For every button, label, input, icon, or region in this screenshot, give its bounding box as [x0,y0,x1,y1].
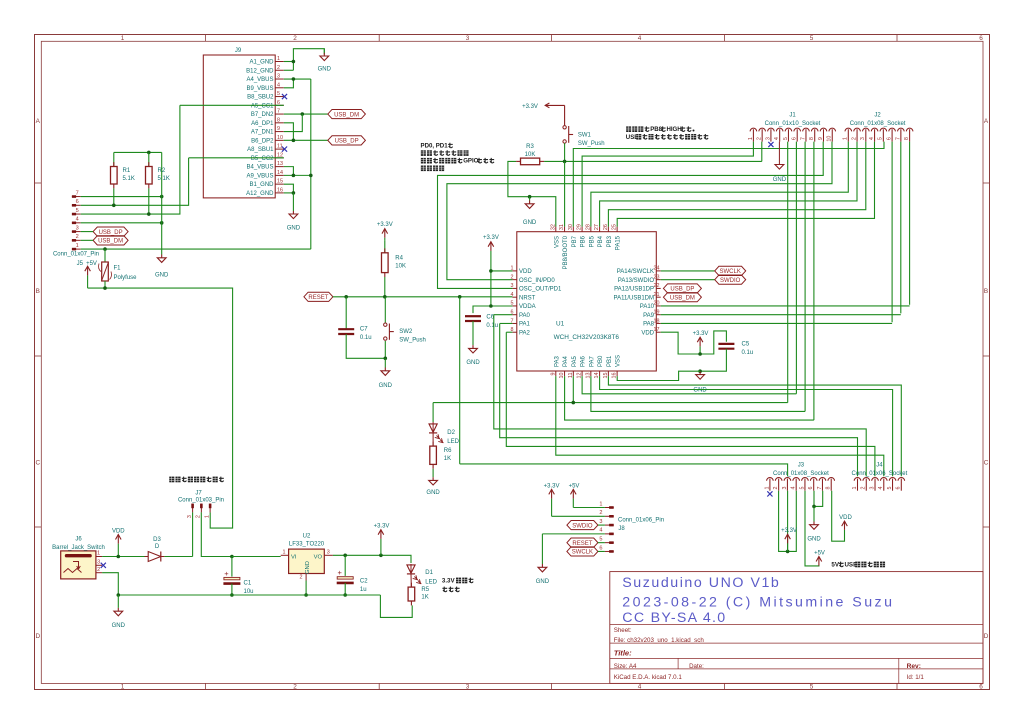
svg-text:PA1: PA1 [519,322,531,328]
junction BOOT0 [563,160,567,164]
svg-text:PB6: PB6 [581,235,587,247]
J6 pin 1 [96,556,102,558]
wire PA5 pin11 to D2 and J1 pin5 [572,376,574,403]
svg-text:GND: GND [426,490,440,496]
svg-text:USB_DM: USB_DM [334,112,359,118]
wire SWCLK pin24 [661,270,715,272]
wire R1 bottom to row6 [113,188,115,205]
svg-text:Size: A4: Size: A4 [614,663,637,670]
svg-text:C5: C5 [742,342,750,348]
svg-text:19: 19 [654,310,660,316]
svg-text:GND: GND [536,579,550,585]
svg-text:7: 7 [817,487,823,490]
power +3.3V left arrow at SW1 [545,104,564,106]
label SWDIO at J8 [567,520,598,529]
svg-text:2023-08-22 (C) Mitsumine Suzu: 2023-08-22 (C) Mitsumine Suzu [622,595,894,611]
wire GND drop x161.7 [161,152,163,254]
J9 pin 2 B12_GND [275,69,284,71]
U1 pin 5 VDDA [512,305,516,307]
svg-text:SWCLK: SWCLK [572,550,593,556]
label USB_DP at pin22 [663,284,701,293]
note manual power switch [169,477,174,483]
svg-text:Conn_01x03_Pin: Conn_01x03_Pin [178,498,224,504]
wire R2 bottom to row5 [148,188,150,214]
svg-text:4: 4 [869,137,875,140]
svg-text:8: 8 [904,137,910,140]
svg-text:A: A [36,118,41,125]
junction rail R2 [147,151,151,155]
junction GND row [528,195,532,199]
svg-text:5: 5 [599,536,602,542]
MCU U1 WCH_CH32V203K8T6 [517,232,657,371]
svg-text:B1_GND: B1_GND [249,182,274,188]
svg-text:B8_SBU2: B8_SBU2 [247,95,274,101]
wire PD0 route U1 pin2 to J1 pin10 [447,142,832,280]
svg-text:5: 5 [277,91,280,97]
svg-text:SW1: SW1 [578,133,592,139]
svg-text:10: 10 [827,136,833,142]
wire SW1 bottom to BOOT0 row [564,143,566,161]
J8 pin 6 [605,550,614,552]
J9 pin 13 B4_VBUS [275,166,284,168]
svg-text:PA2: PA2 [519,330,531,336]
U1 pin 28 PB5 [590,227,592,232]
svg-text:A5_CC1: A5_CC1 [251,103,274,109]
power +3.3V at J3 [787,534,789,543]
wire J9 pin9 to pin7 [284,114,303,132]
wire R3 left to GND [508,161,530,196]
svg-text:PA11/USB1DM: PA11/USB1DM [614,295,654,301]
J3 pin 7 [819,477,826,480]
svg-text:U2: U2 [303,533,311,539]
svg-text:GND: GND [466,360,480,366]
svg-text:23: 23 [654,274,660,280]
wire U2 out row [333,555,411,563]
svg-text:5: 5 [887,487,893,490]
J2 pin 2 [854,128,861,131]
J3 pin 5 [802,478,809,481]
svg-text:3: 3 [97,560,100,566]
junction U2 GND [304,593,308,597]
J4 pin 1 [854,478,861,481]
svg-text:GND: GND [112,623,126,629]
svg-text:GND: GND [807,537,821,543]
svg-text:Polyfuse: Polyfuse [114,275,138,281]
svg-text:1: 1 [121,35,125,42]
power VDD at J6 [117,535,119,544]
wire PB4 pin27 to J2 pin2 [600,142,857,227]
svg-text:5.1K: 5.1K [123,176,135,182]
svg-text:A7_DN1: A7_DN1 [251,130,274,136]
U1 pin 32 VSS [555,227,557,232]
svg-text:Conn_01x10_Socket: Conn_01x10_Socket [765,121,821,127]
J7 pin 1 [209,504,211,513]
svg-text:7: 7 [895,137,901,140]
capacitor C6 0.1u at VDDA [465,315,481,317]
ground GND under C5 [699,371,701,374]
svg-text:2: 2 [851,137,857,140]
ground GND at J9 top [323,49,325,53]
U1 pin 4 NRST [512,296,516,298]
svg-text:2: 2 [196,515,202,518]
wire R6 to GND [432,469,434,477]
svg-text:32: 32 [550,224,556,230]
wire VDD pin17 route [661,331,727,354]
junction +3.3V out [379,554,383,558]
U1 pin 19 PA9 [656,314,660,316]
junction C2 [343,554,347,558]
svg-text:A4_VBUS: A4_VBUS [246,77,273,83]
U1 pin 17 VDD [656,331,660,333]
ground GND under C6 [472,321,474,345]
wire J9 pin3/pin4 VBUS [284,78,311,80]
svg-text:2: 2 [773,487,779,490]
U1 pin 13 PA7 [590,371,592,376]
svg-text:A1_GND: A1_GND [249,60,274,66]
wire J6 pin2 to GND rail [102,573,118,595]
junction PA5 [572,401,576,405]
svg-text:5: 5 [878,137,884,140]
wire PA3 pin9 to J4 pin4 [556,376,884,476]
svg-text:USB_DP: USB_DP [99,230,123,236]
svg-text:+3.3V: +3.3V [544,483,560,489]
wire CC pulldown top rail [114,151,162,153]
wire J1 pin2 riser [761,142,763,162]
wire D3 to J7 pin3 [164,556,192,558]
J9 pin 16 A12_GND [275,192,284,194]
wire PA15 pin25 to J2 pin4 [617,142,874,227]
wire PA10 pin20 to J2 pin8 [661,305,910,307]
junction J9 pin10 [292,139,296,143]
J4 pin 4 [880,477,887,480]
svg-text:1: 1 [843,137,849,140]
J3 pin 6 [810,478,817,481]
svg-text:2: 2 [293,35,297,42]
J5 pin 7 [72,196,81,198]
U1 pin 29 PB6 [581,227,583,232]
svg-text:13: 13 [277,161,283,167]
svg-text:3: 3 [76,225,79,231]
label SWDIO [715,275,746,284]
junction J9 pin1 [292,60,296,64]
svg-text:NRST: NRST [519,295,536,301]
wire J5 pin1 +5V VBUS row [81,248,311,250]
wire J5 pin5 CC1 [81,105,180,214]
svg-text:Conn_01x06_Socket: Conn_01x06_Socket [852,471,908,477]
no-connect J9 pin5 [282,94,287,99]
wire J2 pin7 to PA9 row [900,142,902,314]
wire J9 pin15 to pin16 [284,184,294,193]
ground GND under R6 [432,477,434,480]
switch SW2 SW_Push [384,297,386,323]
svg-text:F1: F1 [114,266,122,272]
svg-text:J5: J5 [77,261,84,267]
no-connect J9 pin11 [282,147,287,152]
svg-text:B6_DP2: B6_DP2 [251,138,274,144]
svg-text:1: 1 [599,501,602,507]
J9 pin 8 A6_DP1 [275,122,284,124]
wire J1 pin5 to PA5 row [787,142,789,403]
connector J9 USB-C [203,55,275,198]
svg-text:SW_Push: SW_Push [578,141,605,147]
wire J3 pin6 pin7 GND [814,491,823,507]
svg-text:6: 6 [808,487,814,490]
power +3.3V above R4 [384,229,386,238]
svg-text:8: 8 [826,487,832,490]
J7 pin 3 [192,504,194,513]
svg-text:7: 7 [277,109,280,115]
svg-text:B9_VBUS: B9_VBUS [246,86,273,92]
svg-text:GPIO: GPIO [463,158,478,165]
svg-text:+3.3V: +3.3V [522,104,538,110]
svg-text:PA3: PA3 [554,355,560,367]
svg-text:GND: GND [773,177,787,183]
svg-text:1: 1 [204,515,210,518]
junction R2 row5 [147,212,151,216]
J1 pin 4 [776,128,783,131]
J1 pin 2 [759,128,766,131]
U1 pin 8 PA2 [512,331,516,333]
svg-text:4: 4 [638,35,642,42]
label USB_DP at J5 pin3 [93,227,128,236]
svg-text:PA0: PA0 [519,313,531,319]
U1 pin 10 PA4 [564,371,566,376]
J3 pin 1 [767,477,774,480]
wire PA4 pin10 to J1 pin8 row [565,376,814,420]
U1 pin 26 PB3 [607,227,609,232]
J9 pin 6 A5_CC1 [275,104,284,106]
junction J3 GND [812,505,816,509]
svg-text:J8: J8 [618,526,625,532]
resistor R6 1K [432,433,434,446]
junction F1 bottom [103,286,107,290]
J9 pin 14 A9_VBUS [275,174,284,176]
junction J9 pin3 [292,77,296,81]
svg-text:2: 2 [293,684,297,691]
wire J6 pin1 to D3 [102,556,148,558]
U1 pin 20 PA10 [656,305,660,307]
U1 pin 12 PA6 [581,371,583,376]
wire J9 pin8 to pin10 [284,123,294,141]
svg-text:24: 24 [654,266,660,272]
capacitor C5 0.1u [718,343,734,345]
svg-text:PA5: PA5 [572,355,578,367]
svg-text:8: 8 [277,117,280,123]
svg-text:PB4: PB4 [598,235,604,247]
switch SW1 SW_Push [564,105,566,125]
svg-text:9: 9 [277,126,280,132]
wire PB0 pin14 to J4 pin5 [600,376,893,476]
svg-text:0.1u: 0.1u [360,335,372,341]
wire PA7 pin13 to J1 pin7 row [591,376,805,411]
svg-text:Title:: Title: [614,648,632,657]
resistor R1 5.1K [113,152,115,166]
svg-text:5: 5 [799,487,805,490]
wire BOOT0 pin31 riser [564,161,566,226]
svg-text:3: 3 [869,487,875,490]
junction J9 pin14 [292,174,296,178]
svg-text:+3.3V: +3.3V [374,524,390,530]
svg-text:1K: 1K [444,456,451,462]
svg-text:PB5: PB5 [589,235,595,247]
svg-text:20: 20 [654,301,660,307]
wire U1 NRST drop [459,297,461,464]
svg-text:Conn_01x06_Pin: Conn_01x06_Pin [618,517,664,523]
wire J5 pin4 GND [81,222,162,224]
label USB_DM at J9 [328,109,366,118]
label RESET at J8 [567,538,598,547]
svg-text:VSS: VSS [554,236,560,248]
ground GND at J3 [813,506,815,521]
svg-text:1: 1 [283,550,286,556]
wire J3 pin5 +5V [805,491,819,566]
svg-text:VDD: VDD [839,515,852,521]
svg-text:5V: 5V [831,562,839,569]
svg-text:USB_DM: USB_DM [670,295,695,301]
svg-text:4: 4 [599,528,602,534]
J5 pin 5 [72,213,81,215]
svg-text:4: 4 [638,684,642,691]
svg-text:3: 3 [782,487,788,490]
svg-text:C: C [984,460,989,467]
U2 pin3 [324,554,333,556]
U2 pin1 [281,554,289,556]
svg-text:3.3V: 3.3V [442,578,456,585]
wire PA9 pin19 to J2 pin7 [661,314,901,316]
J9 pin 15 B1_GND [275,183,284,185]
capacitor C2 1u [344,555,346,576]
J9 pin 10 B6_DP2 [275,139,284,141]
svg-text:RESET: RESET [572,541,592,547]
svg-text:3: 3 [187,515,193,518]
wire J1 pin6 to PA6 row [795,142,797,394]
junction C1 [230,555,234,559]
svg-text:Conn_01x08_Socket: Conn_01x08_Socket [773,471,829,477]
junction VDD pin1 [489,269,493,273]
svg-text:14: 14 [277,170,283,176]
J5 pin 3 [72,231,81,233]
U1 pin 21 PA11/USB1DM [656,296,660,298]
J3 pin 3 [784,478,791,481]
J5 pin 1 [72,248,81,250]
svg-text:SWDIO: SWDIO [720,278,741,284]
label RESET global [304,292,333,301]
svg-text:LED: LED [425,579,437,585]
svg-text:Conn_01x07_Pin: Conn_01x07_Pin [53,252,99,258]
J1 pin 6 [794,128,801,131]
junction F1 top [103,247,107,251]
wire J9 pin14 VBUS [284,174,311,176]
U1 pin 11 PA5 [572,371,574,376]
svg-text:B7_DN2: B7_DN2 [251,112,274,118]
svg-text:C1: C1 [244,581,252,587]
J9 pin 4 B9_VBUS [275,87,284,89]
label SWCLK [715,266,746,275]
ground GND near R3 [529,197,531,201]
svg-text:9: 9 [550,373,556,376]
wire PB1 pin15 to J4 pin6 [608,376,901,476]
wire PB7 pin30 to J2 pin5 [573,142,884,227]
wire CC2 to J9 pin12 [189,157,284,159]
title block [610,572,983,684]
svg-text:GND: GND [693,387,707,393]
J2 pin 8 [906,128,913,131]
svg-text:1K: 1K [421,595,428,601]
svg-text:Date:: Date: [689,663,704,670]
wire J9 pin13 to pin14 [284,167,294,176]
svg-text:WCH_CH32V203K8T6: WCH_CH32V203K8T6 [554,334,620,341]
svg-text:PA10: PA10 [640,304,655,310]
junction J9 pin7 [301,112,305,116]
U1 pin 24 PA14/SWCLK [656,270,660,272]
svg-text:3: 3 [599,519,602,525]
svg-text:B: B [984,288,988,295]
wire J9 pin7 USB_DM [284,113,328,115]
J4 pin 2 [863,478,870,481]
power +3.3V at J8 [551,489,553,498]
svg-text:PB7: PB7 [572,235,578,247]
J1 pin 8 [811,128,818,131]
wire VSS pin16 to GND [617,371,700,380]
junction J3 +3.3V [786,550,790,554]
svg-text:+5V: +5V [814,551,825,557]
wire R4 bottom to RESET row [384,277,386,297]
power +3.3V at U1 VDD pin1 [490,242,492,251]
U1 pin 9 PA3 [555,371,557,376]
wire J2 pin6 to PA8 row [891,142,893,323]
wire GND rail power section [118,594,380,596]
svg-text:RESET: RESET [308,295,328,301]
svg-text:C7: C7 [360,327,368,333]
svg-text:3: 3 [765,137,771,140]
J2 pin 7 [898,128,905,131]
junction row4 [160,221,164,225]
svg-text:U1: U1 [556,321,565,328]
wire SWDIO pin23 [661,279,715,281]
J8 pin 1 [605,507,614,509]
svg-text:0.1u: 0.1u [742,350,754,356]
LED D2 [432,403,434,422]
J3 pin 8 [828,477,835,480]
svg-text:LF33_TO220: LF33_TO220 [289,542,325,548]
svg-text:PB8: PB8 [650,126,662,133]
U1 pin 18 PA8 [656,322,660,324]
svg-text:GND: GND [305,561,311,574]
wire VBUS rail down [310,79,312,249]
svg-text:PB1: PB1 [607,355,613,367]
svg-text:D3: D3 [153,537,161,543]
svg-text:1: 1 [764,487,770,490]
svg-text:2: 2 [76,234,79,240]
svg-text:PA12/USB1DP: PA12/USB1DP [614,287,654,293]
no-connect J3 pin1 [767,491,772,496]
wire RESET row to U1 NRST [333,296,513,298]
J2 pin 1 [845,128,852,131]
svg-text:B5_CC2: B5_CC2 [251,156,274,162]
svg-text:J6: J6 [75,537,82,543]
J1 pin 7 [803,128,810,131]
ground GND at J8 [541,534,543,564]
svg-text:Id: 1/1: Id: 1/1 [907,674,925,681]
svg-text:SW2: SW2 [399,329,413,335]
J6 pin 3 no-connect [96,564,102,566]
wire J7 pin2 down to VIN rail [201,512,232,556]
svg-text:1: 1 [748,137,754,140]
wire PA2 pin8 to J4 pin3 [506,331,512,333]
J1 pin 5 [785,128,792,131]
svg-text:R6: R6 [444,448,452,454]
U1 pin 31 PB8/BOOT0 [564,227,566,232]
